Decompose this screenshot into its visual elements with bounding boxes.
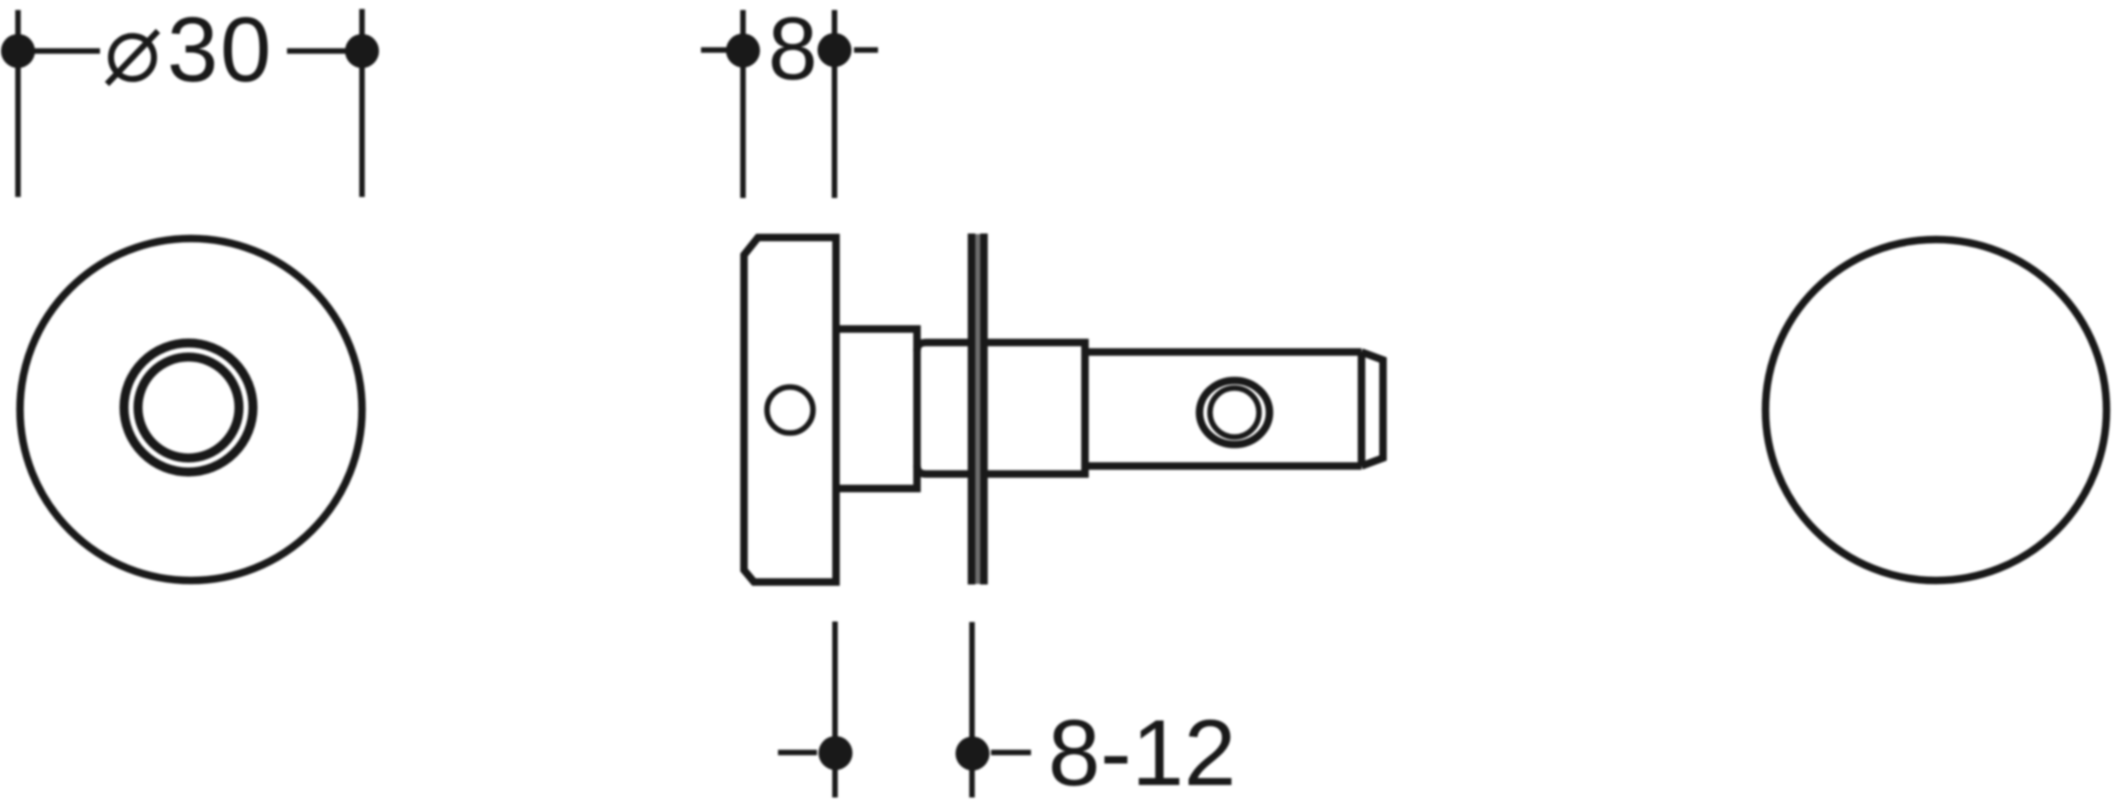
front view center hole circle bbox=[138, 357, 239, 458]
dimension d30 line right segment bbox=[287, 48, 362, 54]
glass panel fill bbox=[969, 234, 987, 584]
glass panel left line bbox=[968, 234, 976, 585]
side view collar step 2 bbox=[917, 343, 1085, 475]
dimension 8 right extension line bbox=[832, 10, 838, 198]
side view flange set-screw hole bbox=[767, 387, 813, 433]
side view shaft cross hole inner ring bbox=[1210, 388, 1259, 437]
svg-text:30: 30 bbox=[167, 0, 273, 101]
dimension 8 right dot terminator bbox=[818, 33, 852, 67]
side view collar step 1 bbox=[836, 329, 917, 489]
svg-text:8-12: 8-12 bbox=[1048, 700, 1236, 800]
dimension 8-12 left extension line bbox=[832, 622, 838, 798]
dimension 8-12 left tick bbox=[778, 750, 817, 756]
value 8 label bbox=[768, 0, 818, 98]
side view shaft body bbox=[1085, 352, 1362, 466]
value 30 of d30 label bbox=[167, 0, 273, 101]
dimension 8 right tick bbox=[854, 47, 878, 53]
dimension d30 line left segment bbox=[18, 48, 100, 54]
side view shaft end groove line bbox=[1358, 352, 1366, 466]
glass panel right line bbox=[980, 234, 988, 585]
diameter symbol of d30 label bbox=[107, 31, 158, 84]
dimension 8-12 left dot terminator bbox=[819, 736, 853, 770]
dimension d30 right dot terminator bbox=[345, 34, 379, 68]
svg-text:8: 8 bbox=[768, 0, 818, 98]
rear view circle bbox=[1766, 240, 2107, 581]
side view flange outline bbox=[744, 238, 836, 583]
side view shaft chamfered tip bbox=[1362, 352, 1384, 466]
side view shaft cross hole outer ring bbox=[1200, 381, 1270, 445]
dimension d30 left dot terminator bbox=[1, 34, 35, 68]
dimension d30 left extension line bbox=[15, 10, 21, 197]
dimension d30 right extension line bbox=[359, 9, 365, 197]
dimension 8-12 right tick bbox=[991, 750, 1031, 756]
dimension 8 left extension line bbox=[740, 10, 746, 198]
dimension 8 left dot terminator bbox=[726, 34, 760, 68]
front view outer circle bbox=[20, 239, 362, 581]
value 8-12 label bbox=[1048, 700, 1236, 800]
dimension 8 left tick bbox=[701, 47, 727, 53]
front view boss ring outer circle bbox=[124, 343, 253, 472]
dimension 8-12 right dot terminator bbox=[956, 737, 990, 771]
dimension 8-12 right extension line bbox=[969, 622, 975, 798]
